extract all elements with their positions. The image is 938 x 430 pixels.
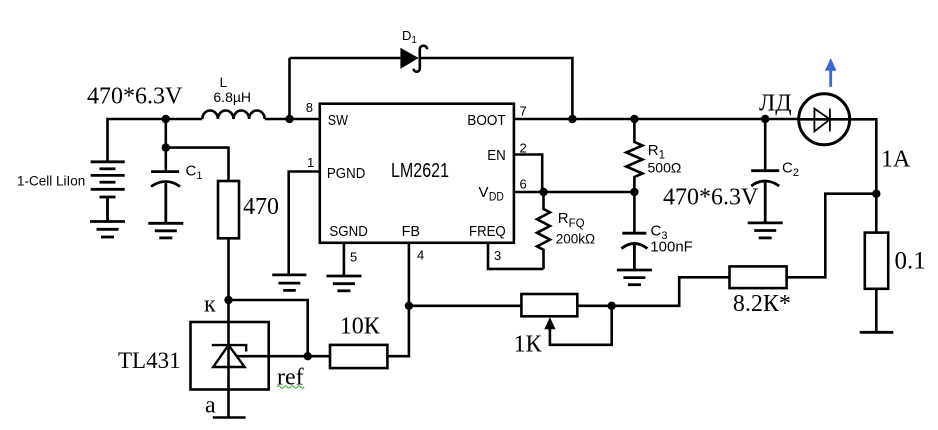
svg-text:FREQ: FREQ [469,223,506,240]
beam arrow blue [825,58,837,87]
wire wiper to right node [550,306,612,345]
ground C1 [148,223,183,238]
svg-text:3: 3 [494,248,501,263]
svg-text:TL431: TL431 [118,348,181,373]
svg-text:470*6.3V: 470*6.3V [87,84,183,110]
resistor 0.1 (box) [865,233,888,289]
wire LD cathode to sense node [850,119,877,193]
svg-text:1: 1 [307,155,314,170]
capacitor C1 [151,172,180,223]
wire pot right terminal [577,304,611,307]
resistor RFQ zigzag [537,192,550,269]
svg-text:SW: SW [328,112,349,129]
node pot-wiper junction dot [608,302,616,310]
TL431 cathode bar [212,345,246,351]
wire inductor to SW node [265,118,320,121]
svg-text:FB: FB [402,223,421,240]
svg-text:ЛД: ЛД [759,91,792,117]
diode D1 schottky bar [414,46,428,72]
TL431 anode bar [213,416,246,419]
terminal bar bottom [860,331,894,334]
battery BT1 1-Cell LiIon [91,162,125,222]
svg-text:500Ω: 500Ω [648,159,682,175]
svg-text:7: 7 [520,104,527,119]
inductor L 6.8uH [202,111,264,120]
wire pot node to resistor 8.2K [612,277,730,306]
resistor R1 zigzag [626,119,642,192]
svg-text:V: V [479,184,489,201]
wire node B to resistor 470 top [166,148,229,181]
wire resistor 8.2K to sense node [787,194,877,278]
laser diode LD cathode bar [829,109,831,132]
wire D1 anode rail [290,57,401,60]
wire VDD rail [514,191,635,194]
node K junction dot [224,296,232,304]
ref spell squiggle [277,386,304,389]
node R1 top junction dot [630,115,638,123]
node A junction dot [162,115,170,123]
wire TL431 ref out [237,355,308,358]
wire PGND pin to ground [289,172,320,275]
wire D1 cathode to BOOT rail drop [421,58,572,119]
ground C3 [617,270,652,285]
svg-text:1А: 1А [881,147,911,173]
potentiometer 1K wiper arrow [544,317,555,329]
potentiometer 1K (box) [521,294,577,316]
svg-text:0.1: 0.1 [895,248,926,275]
node SW junction dot [285,115,293,123]
svg-text:SGND: SGND [329,223,368,240]
svg-text:470: 470 [243,194,279,220]
svg-text:6.8µH: 6.8µH [213,89,251,105]
capacitor C2 [751,171,779,223]
node ref junction dot [304,352,312,360]
node C2 junction dot [761,115,769,123]
svg-text:8.2К*: 8.2К* [733,291,791,317]
svg-text:10К: 10К [340,314,381,340]
node D1-BOOT junction dot [568,115,576,123]
capacitor C3 [621,233,647,269]
resistor 8.2K (box) [730,266,787,288]
wire node A down to node B [165,119,168,148]
svg-text:EN: EN [487,147,506,164]
svg-text:470*6.3V: 470*6.3V [663,185,759,211]
wire SGND pin 5 to ground [343,243,346,276]
laser diode LD wire through [799,118,850,121]
resistor 10K (box) [330,345,387,368]
wire node K to ref node [229,300,308,356]
wire FREQ pin 3 to RFQ bottom [488,243,544,269]
wire BOOT rail [514,118,799,121]
svg-text:1-Cell LiIon: 1-Cell LiIon [17,174,85,189]
svg-text:6: 6 [520,177,527,192]
svg-text:PGND: PGND [327,165,366,182]
wire node A to inductor [166,118,203,121]
node sense junction dot [872,190,880,198]
wire FB node to potentiometer 1K [409,304,522,307]
wire EN pin 2 to VDD rail [514,155,542,193]
laser diode LD triangle [814,109,830,132]
svg-text:к: к [204,292,216,318]
svg-text:а: а [205,393,216,419]
node VDD-EN junction dot [539,188,547,196]
svg-text:200kΩ: 200kΩ [556,231,595,246]
capacitor C1 lead [165,148,168,171]
laser diode LD circle [799,94,850,145]
wire sense node to resistor 0.1 [875,194,878,233]
svg-text:8: 8 [306,100,313,115]
wire input rail from battery to node A [108,119,166,162]
node FB junction dot [405,302,413,310]
node B junction dot [162,143,170,151]
capacitor C2 lead [764,119,767,170]
TL431 triangle [213,345,244,367]
diode D1 triangle [400,48,418,69]
op-amp U1 LM2621 box [320,104,514,243]
TL431 cathode-anode line [227,300,230,418]
svg-text:100nF: 100nF [650,238,693,255]
node R1-VDD junction dot [630,188,638,196]
resistor 470 (box) [218,181,239,238]
ground battery [90,222,125,238]
svg-text:L: L [220,74,228,90]
svg-text:DD: DD [489,192,504,204]
wire resistor 0.1 to terminal [875,289,878,332]
wire ref node to resistor 10K [308,355,330,358]
ground PGND [272,275,306,291]
wire FB pin 4 to FB node [408,243,411,306]
svg-text:BOOT: BOOT [467,112,505,129]
ground SGND [326,276,361,291]
svg-text:5: 5 [350,250,357,265]
svg-text:4: 4 [417,248,424,263]
wire resistor 470 to node K [227,238,230,300]
svg-text:LM2621: LM2621 [391,160,449,182]
svg-text:1К: 1К [514,332,543,358]
wire SW node to D1 rail [288,58,291,119]
wire 10K to FB node [387,306,409,356]
ground C2 [748,223,783,238]
capacitor C3 lead [633,192,636,233]
op-amp U2 TL431 box [191,322,269,390]
